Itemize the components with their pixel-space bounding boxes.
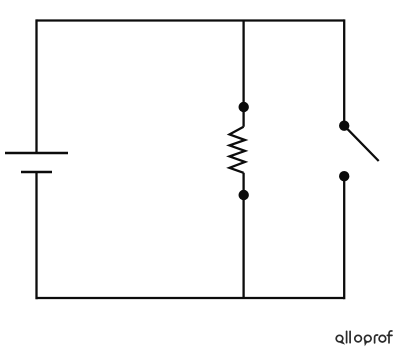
node dot switch bottom — [339, 171, 349, 181]
wire left upper — [35, 19, 37, 152]
wire left lower — [35, 173, 37, 299]
wire right upper — [343, 19, 345, 125]
node dot resistor bottom — [239, 190, 249, 200]
label alloprof — [336, 331, 392, 345]
wire top — [37, 19, 345, 21]
node dot resistor top — [239, 102, 249, 112]
wire middle lower — [242, 173, 244, 298]
wire middle upper — [242, 21, 244, 127]
battery B1 — [5, 153, 68, 172]
wire bottom — [37, 297, 345, 299]
switch S1 blade — [344, 126, 379, 161]
resistor R1 — [230, 127, 246, 173]
node dot switch top — [339, 121, 349, 131]
wire right lower — [343, 176, 345, 299]
